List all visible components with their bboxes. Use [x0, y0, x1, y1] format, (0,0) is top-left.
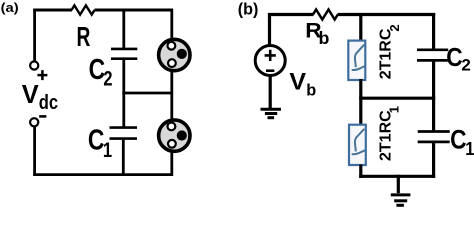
wire source bottom (b) [269, 74, 272, 109]
block 2T1RC1 [349, 125, 366, 165]
resistor Rb [313, 10, 338, 20]
svg-text:(a): (a) [1, 0, 19, 15]
wire middle branch upper (a) [122, 9, 125, 49]
svg-text:C: C [450, 126, 467, 155]
resistor R [72, 5, 95, 14]
svg-text:2T1RC: 2T1RC [377, 110, 394, 161]
memristive device M2 (top) [159, 39, 190, 70]
plus sign (a) [37, 70, 47, 80]
capacitor C1 (a) [110, 128, 138, 139]
svg-text:2: 2 [387, 24, 402, 31]
ground stub (b) [397, 175, 400, 193]
wire left lower (a) [33, 127, 36, 176]
svg-text:2T1RC: 2T1RC [377, 28, 394, 79]
svg-text:1: 1 [386, 106, 401, 113]
wire cap branch top (b) [432, 13, 435, 49]
wire block branch top (b) [359, 13, 362, 42]
wire top-left segment (b) [268, 13, 314, 16]
terminal minus (a) [30, 118, 38, 126]
wire right branch bottom (a) [170, 150, 173, 176]
wire cap branch mid (b) [432, 62, 435, 131]
svg-text:C: C [88, 125, 105, 156]
wire top-right segment (a) [95, 9, 174, 12]
wire bottom (a) [33, 173, 173, 176]
wire left upper (a) [33, 9, 36, 62]
svg-text:b: b [319, 28, 330, 48]
wire top-right segment (b) [338, 13, 436, 16]
svg-text:2: 2 [461, 55, 470, 74]
minus sign (a) [39, 115, 46, 118]
terminal plus (a) [30, 61, 38, 69]
wire top-left segment (a) [33, 9, 72, 12]
wire right branch mid (a) [170, 70, 173, 121]
svg-text:V: V [22, 81, 40, 109]
capacitor C1 (b) [418, 132, 450, 142]
wire middle branch mid (a) [122, 60, 125, 127]
svg-text:(b): (b) [238, 0, 259, 18]
wire source top (b) [268, 13, 271, 47]
svg-text:b: b [306, 82, 316, 100]
ground bottom (b) [391, 195, 411, 205]
wire between blocks (b) [359, 79, 362, 126]
wire cap branch bottom (b) [432, 143, 435, 178]
svg-text:R: R [77, 22, 91, 54]
svg-text:1: 1 [465, 138, 474, 159]
block 2T1RC2 [348, 41, 365, 80]
wire middle branch bottom (a) [122, 140, 125, 176]
capacitor C2 (b) [417, 50, 448, 61]
svg-text:dc: dc [39, 90, 58, 113]
svg-text:2: 2 [103, 67, 112, 90]
ground under Vb [261, 109, 282, 118]
svg-text:1: 1 [103, 138, 112, 161]
svg-text:C: C [446, 44, 462, 73]
wire mid node (b) [359, 97, 435, 100]
capacitor C2 (a) [111, 49, 137, 59]
wire bottom (b) [359, 175, 435, 178]
wire block branch bottom (b) [359, 165, 362, 178]
voltage source Vb [255, 46, 285, 76]
wire right branch top (a) [170, 9, 173, 43]
wire node (a) [122, 92, 171, 95]
svg-text:V: V [289, 69, 306, 95]
memristive device M1 (bottom) [159, 120, 190, 151]
